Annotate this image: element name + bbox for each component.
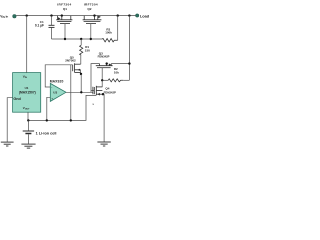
node junction battery tap xyxy=(27,119,29,121)
node junction Q5 source xyxy=(80,73,82,75)
node junction R3 top xyxy=(117,14,119,16)
wire gate rail xyxy=(52,38,103,40)
svg-text:150: 150 xyxy=(85,48,90,52)
resistor R1 150 xyxy=(80,39,91,64)
node junction Q3 body on wire xyxy=(106,62,108,64)
ground battery xyxy=(21,144,35,148)
node junction comparator input on bottom rail xyxy=(46,119,48,121)
node junction C1 tap xyxy=(50,14,52,16)
svg-text:(MAX1507): (MAX1507) xyxy=(19,90,36,94)
svg-text:VIN In: VIN In xyxy=(0,15,8,20)
node junction Q4 source xyxy=(102,93,104,95)
wire Q4 source to ground xyxy=(103,94,105,142)
transistor Q3 FDN342P xyxy=(96,52,130,81)
node junction right rail top xyxy=(128,14,130,16)
resistor R3 100k xyxy=(102,16,118,42)
wire U1 Gnd pin xyxy=(7,98,12,142)
wire top rail xyxy=(16,15,136,17)
node junction Q2 body xyxy=(93,14,95,16)
wire bottom rail xyxy=(28,95,96,120)
node Vin In terminal xyxy=(0,15,16,20)
node junction Q1 body xyxy=(61,14,63,16)
wire U1 Vout pin xyxy=(27,112,29,120)
wire right rail xyxy=(128,16,130,81)
svg-text:FDN342P: FDN342P xyxy=(98,55,110,59)
node junction output / Q5 source xyxy=(80,91,82,93)
svg-text:Q2: Q2 xyxy=(87,7,91,11)
svg-text:2N7002: 2N7002 xyxy=(65,59,76,63)
wire Q4 gate riser to Q3 drain xyxy=(91,64,100,93)
svg-text:FDN342P: FDN342P xyxy=(104,91,116,95)
capacitor C1 0.1uF xyxy=(35,16,55,39)
node junction right rail / Q3 xyxy=(128,62,130,64)
wire comparator inverting input lower xyxy=(47,97,51,120)
svg-text:+: + xyxy=(51,97,53,101)
node junction Q5 gate net on bottom rail xyxy=(70,119,72,121)
wire Q4 gate stub xyxy=(91,90,94,92)
chip U1 MAX1507 xyxy=(7,16,41,142)
battery 1 Li-ion cell xyxy=(23,120,57,143)
op-amp U3 MAX920 comparator xyxy=(47,79,93,120)
wire Q5 gate net to comparator input and bottom rail xyxy=(45,65,72,87)
node junction R2 left / Q3 gate / Q4 drain xyxy=(101,79,103,81)
resistor R2 10k xyxy=(102,67,129,82)
node junction R1 top on rail xyxy=(80,38,82,40)
transistor Q2 IRF7304 xyxy=(83,3,102,40)
svg-text:Load: Load xyxy=(140,13,150,18)
ground left xyxy=(1,142,14,146)
node Load terminal xyxy=(136,13,150,18)
wire U1 Vin pin xyxy=(26,16,28,73)
transistor Q4 FDN342P xyxy=(91,80,116,141)
svg-text:100k: 100k xyxy=(105,31,112,35)
svg-text:MAX920: MAX920 xyxy=(50,79,64,83)
transistor Q5 2N7002 xyxy=(45,55,82,120)
node junction Q1 gate on rail xyxy=(64,38,66,40)
svg-text:0.1 µF: 0.1 µF xyxy=(35,24,44,28)
svg-text:Gnd: Gnd xyxy=(13,97,21,101)
node junction Q2 gate on rail xyxy=(90,38,92,40)
wire Q3 source to right rail xyxy=(111,63,129,65)
wire comparator output xyxy=(66,91,93,93)
svg-text:U3: U3 xyxy=(53,91,57,95)
transistor Q1 IRF7304 xyxy=(56,3,72,40)
svg-text:1 Li-ion cell: 1 Li-ion cell xyxy=(36,131,57,135)
svg-text:-: - xyxy=(51,86,52,90)
ground right xyxy=(97,142,110,146)
svg-text:10k: 10k xyxy=(114,70,119,74)
svg-text:Q1: Q1 xyxy=(63,7,67,11)
node junction U1 Vin tap xyxy=(26,14,28,16)
